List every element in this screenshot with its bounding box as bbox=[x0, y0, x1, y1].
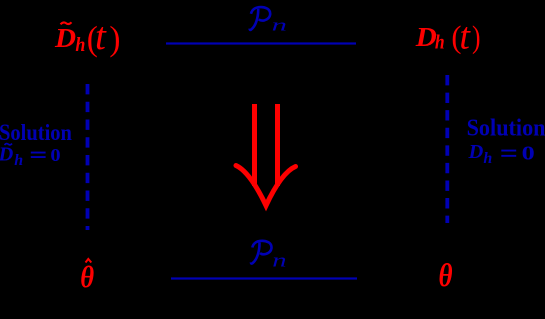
svg-text:D: D bbox=[0, 144, 14, 166]
svg-text:D: D bbox=[468, 141, 484, 163]
wire left dashed line bbox=[86, 84, 90, 230]
arrow big red implication (double down arrow) bbox=[236, 104, 296, 206]
map P_n bottom label (calligraphic P) bbox=[251, 241, 272, 264]
svg-text:h: h bbox=[483, 150, 492, 167]
svg-text:θ: θ bbox=[80, 260, 94, 294]
svg-text:h: h bbox=[14, 152, 23, 169]
node theta bottom-right bbox=[439, 258, 453, 294]
map P_n top label (calligraphic P) bbox=[250, 7, 271, 30]
node theta-hat bottom-left bbox=[80, 259, 94, 294]
node D~h(t) top-left bbox=[54, 15, 121, 58]
node Dh(t) top-right bbox=[415, 15, 481, 57]
svg-text:t: t bbox=[459, 15, 471, 57]
svg-text:h: h bbox=[75, 34, 85, 56]
svg-text:h: h bbox=[435, 32, 445, 54]
svg-text:): ) bbox=[109, 20, 120, 58]
svg-text:Solution: Solution bbox=[467, 115, 545, 142]
svg-text:D: D bbox=[415, 23, 437, 53]
svg-text:0: 0 bbox=[522, 142, 535, 165]
wire bottom arrow line bbox=[171, 277, 357, 279]
label Dh=0 right bbox=[468, 141, 535, 167]
svg-text:n: n bbox=[272, 16, 287, 35]
label Solution left bbox=[0, 119, 72, 146]
svg-text:D: D bbox=[54, 24, 76, 54]
label D~h=0 left bbox=[0, 144, 61, 169]
label Solution right bbox=[467, 115, 545, 142]
svg-text:0: 0 bbox=[50, 146, 60, 165]
svg-text:n: n bbox=[272, 250, 286, 271]
svg-text:t: t bbox=[95, 15, 107, 58]
svg-text:): ) bbox=[472, 20, 481, 55]
wire right dashed line bbox=[445, 75, 449, 223]
svg-text:θ: θ bbox=[439, 258, 453, 294]
svg-text:Solution: Solution bbox=[0, 119, 72, 146]
wire top arrow line bbox=[166, 42, 356, 44]
